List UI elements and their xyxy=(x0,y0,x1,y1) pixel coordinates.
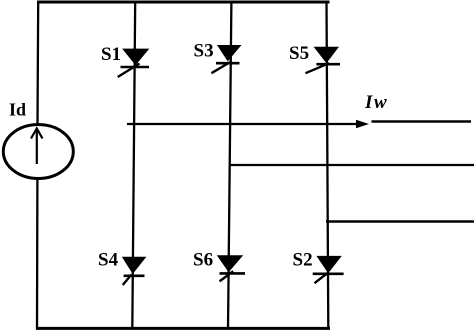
svg-text:Id: Id xyxy=(9,100,26,120)
svg-text:S1: S1 xyxy=(101,44,121,65)
svg-text:S5: S5 xyxy=(289,43,309,64)
svg-text:Iw: Iw xyxy=(364,92,388,113)
svg-text:S2: S2 xyxy=(293,250,313,271)
svg-text:S3: S3 xyxy=(194,41,214,62)
svg-text:S4: S4 xyxy=(98,250,119,271)
svg-text:S6: S6 xyxy=(193,250,213,271)
